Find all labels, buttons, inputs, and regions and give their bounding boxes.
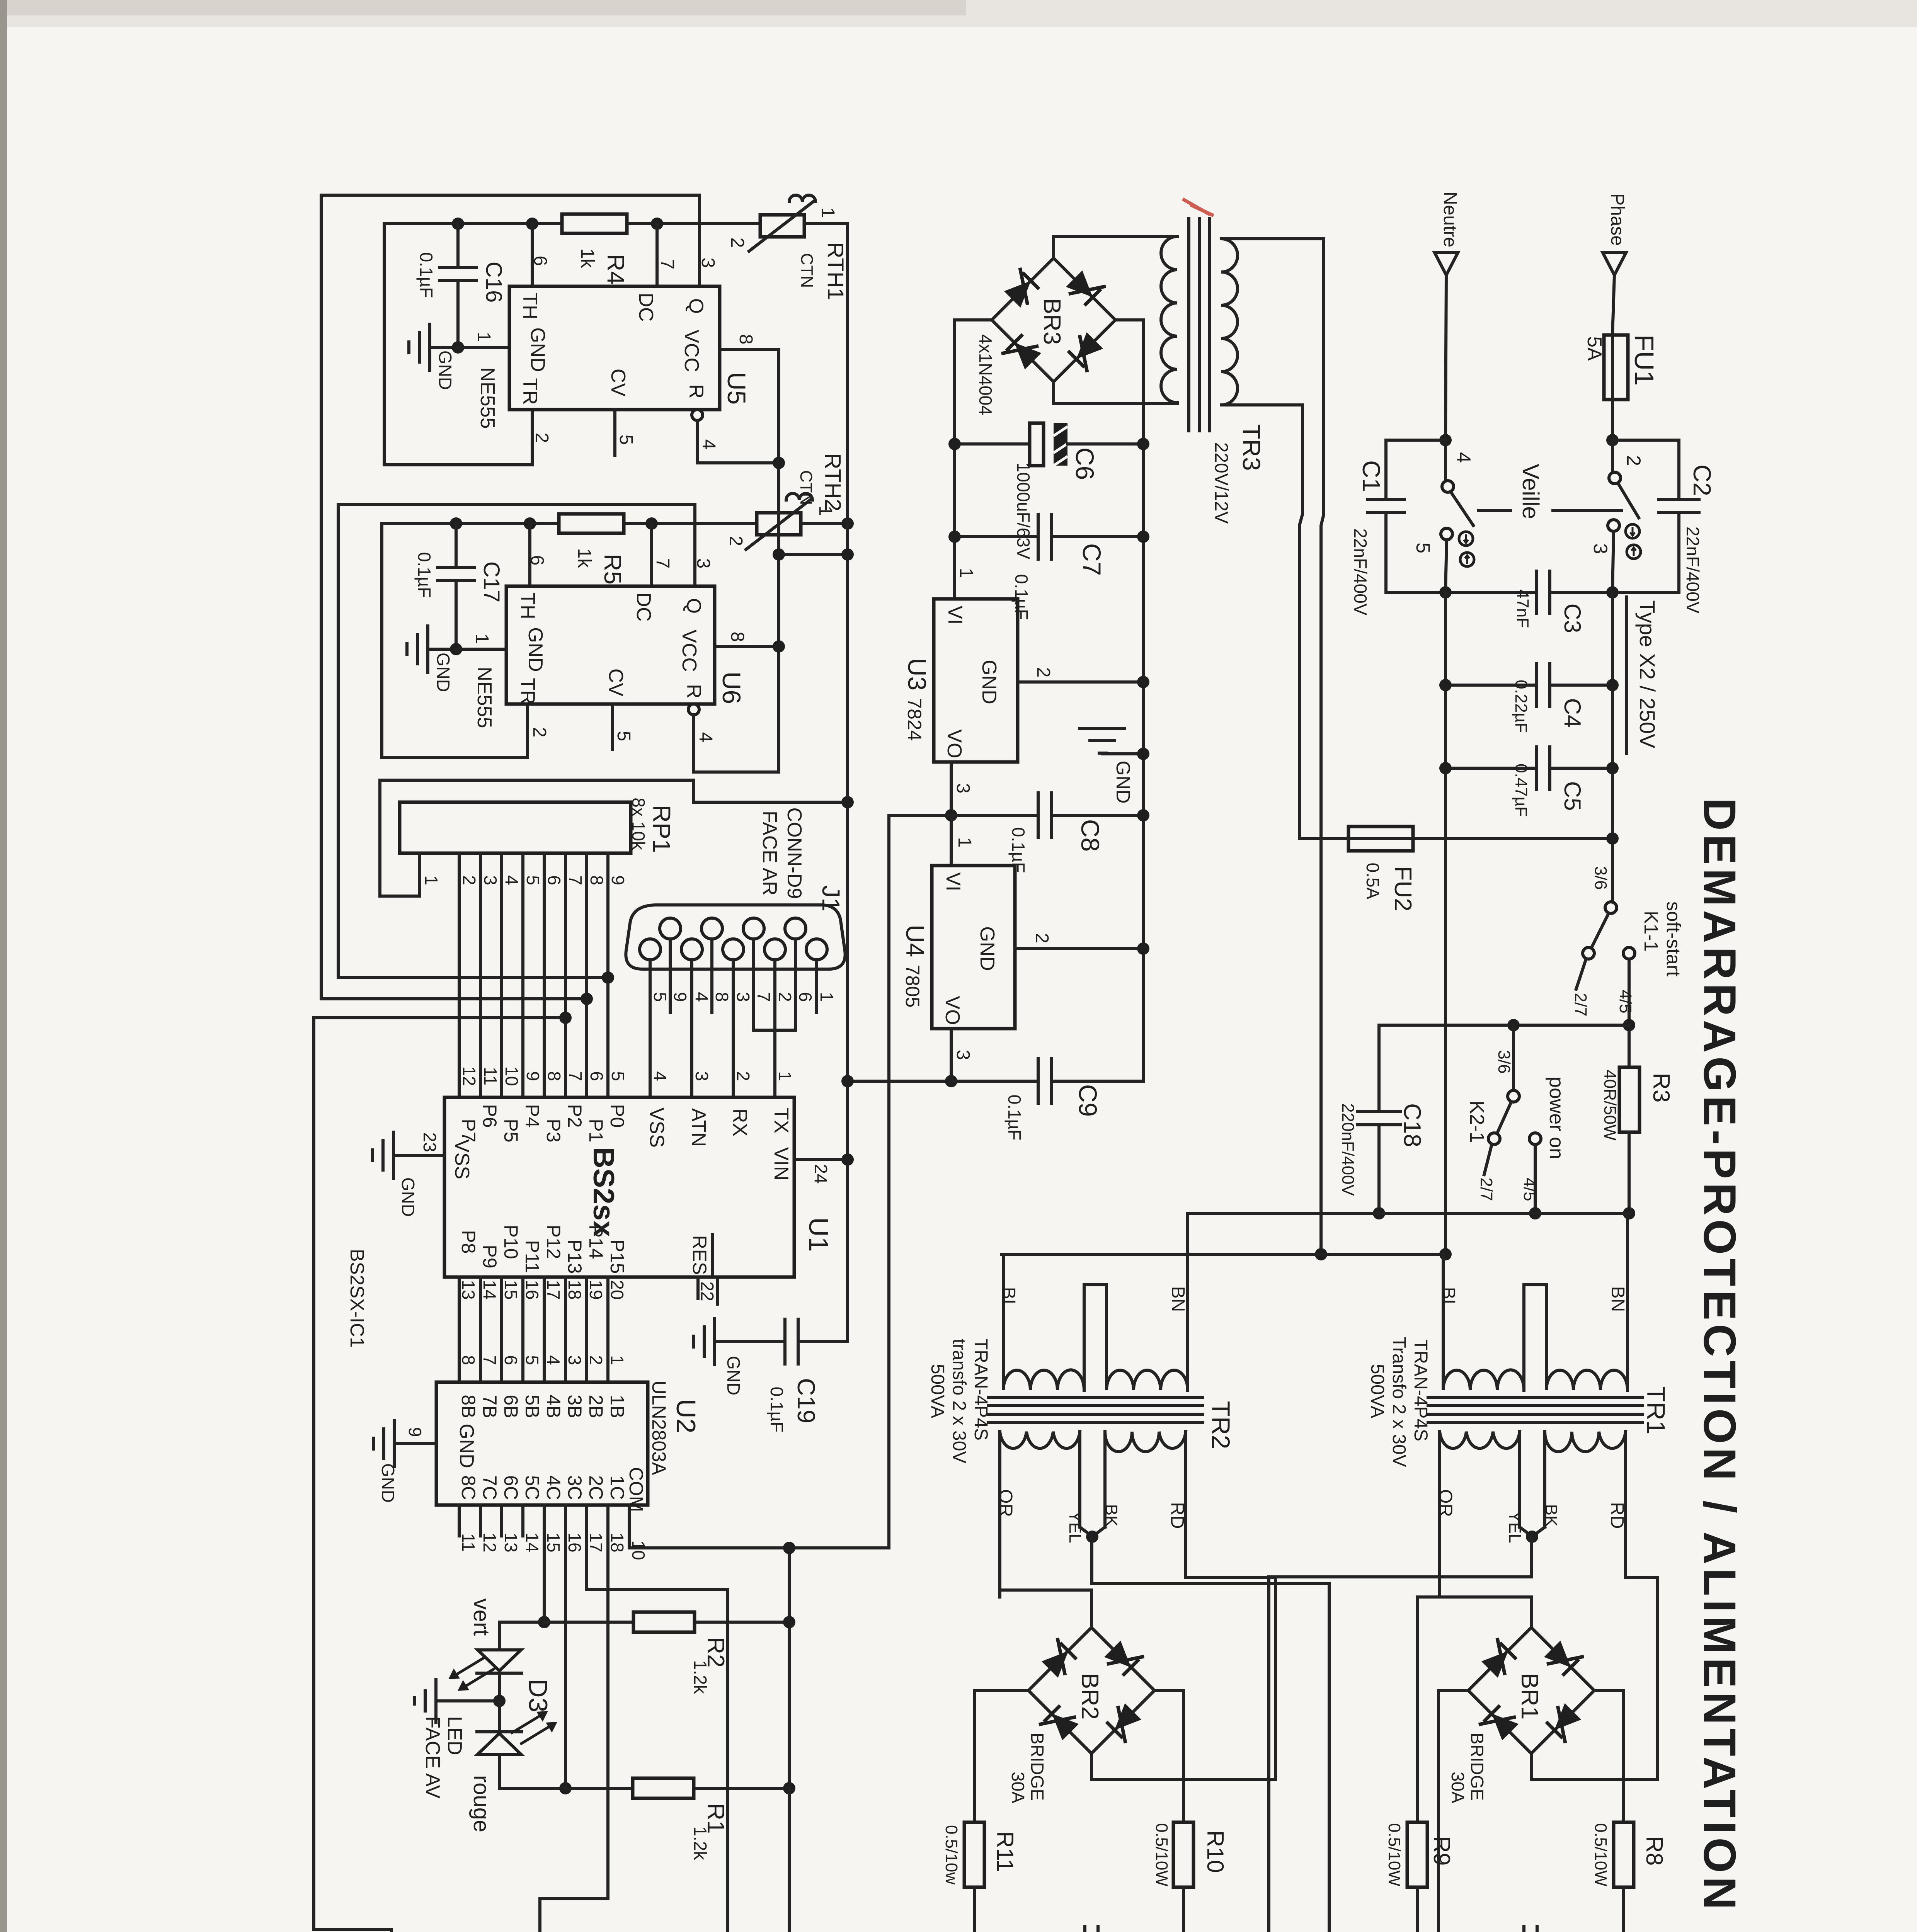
node junctions top rail U6: [450, 517, 462, 530]
resistor R3 40R/50W: [1619, 1067, 1639, 1132]
wire BR3 right to GND rail: [1115, 320, 1143, 1081]
wire U6 pin8 VCC: [715, 645, 779, 648]
svg-text:CTN: CTN: [797, 253, 816, 288]
capacitor C6 1000uF/63V: [955, 442, 1030, 446]
svg-text:6: 6: [544, 875, 564, 885]
wire RP1 pin1 to VCC rail: [380, 780, 848, 896]
svg-text:11: 11: [480, 1067, 501, 1085]
capacitor C2 22nF/400V: [1612, 440, 1679, 500]
resistor R11 0.5/10W: [964, 1822, 984, 1887]
wire COM branch down: [788, 1548, 791, 1788]
svg-text:BL: BL: [1438, 1287, 1459, 1310]
svg-text:7824: 7824: [904, 698, 925, 741]
svg-text:TR1: TR1: [1642, 1386, 1670, 1435]
transformer TR2 core: [988, 1396, 1203, 1399]
svg-text:0.1µF: 0.1µF: [1004, 1095, 1025, 1141]
svg-text:220V/12V: 220V/12V: [1211, 442, 1231, 524]
svg-text:C19: C19: [792, 1378, 820, 1423]
svg-text:C9: C9: [1074, 1084, 1102, 1117]
svg-text:4: 4: [1453, 452, 1474, 463]
svg-text:14: 14: [522, 1532, 542, 1552]
svg-text:12: 12: [459, 1066, 479, 1086]
svg-text:9: 9: [405, 1427, 425, 1437]
svg-text:BS2sx: BS2sx: [587, 1147, 620, 1237]
wire TR2 YEL/BK centre tap to 0V: [1092, 1537, 1329, 1932]
svg-text:3C: 3C: [564, 1475, 586, 1500]
svg-text:19: 19: [586, 1280, 606, 1299]
wire Neutre rail down: [1444, 592, 1447, 1254]
svg-text:5A: 5A: [1583, 336, 1605, 361]
relay contact K2-1 power on: [1512, 1025, 1515, 1090]
svg-text:7: 7: [565, 875, 586, 885]
svg-text:1: 1: [956, 568, 976, 578]
svg-text:C18: C18: [1399, 1103, 1425, 1147]
svg-text:11: 11: [458, 1533, 478, 1552]
wire U2 pin16 output (rouge LED): [564, 1505, 567, 1788]
wire U6 TH/TR loop: [382, 524, 528, 757]
svg-text:rouge: rouge: [469, 1775, 494, 1832]
svg-text:D3: D3: [523, 1679, 553, 1713]
bridge BR3 4x1N4004: [992, 258, 1115, 382]
svg-text:16: 16: [522, 1280, 542, 1299]
capacitor C19 0.1uF at RES rail: [715, 1340, 785, 1343]
svg-text:8C: 8C: [458, 1475, 479, 1500]
capacitor C4 0.22uF: [1445, 684, 1537, 687]
regulator U3 7824: [934, 599, 1018, 762]
svg-text:7: 7: [565, 1071, 586, 1081]
svg-text:K1-1: K1-1: [1640, 911, 1662, 952]
U2 output stubs pins 11-14: [458, 1505, 461, 1536]
svg-text:TH: TH: [519, 293, 541, 319]
svg-text:4: 4: [502, 875, 522, 885]
svg-text:1: 1: [817, 207, 838, 218]
svg-text:C6: C6: [1071, 447, 1099, 480]
wire TR3 primary bottom lead: [1221, 405, 1302, 838]
wire H1 phase bus to TR primaries: [1190, 1212, 1629, 1215]
svg-text:5: 5: [650, 992, 670, 1002]
Neutre input arrow: [1435, 253, 1458, 275]
svg-text:BR2: BR2: [1076, 1673, 1103, 1720]
wire U1 VIN pin24 to rail: [794, 1158, 848, 1161]
TR2 secondary leads: [998, 1432, 1001, 1597]
svg-text:15: 15: [501, 1280, 521, 1299]
svg-text:9: 9: [608, 875, 628, 885]
svg-text:5: 5: [608, 1071, 628, 1081]
svg-text:CV: CV: [604, 668, 627, 697]
svg-text:13: 13: [501, 1532, 521, 1552]
svg-text:4/5: 4/5: [1520, 1177, 1539, 1201]
svg-text:5: 5: [613, 731, 634, 742]
resistor pack RP1 8x10k: [400, 802, 631, 853]
svg-text:0.47µF: 0.47µF: [1512, 764, 1531, 817]
svg-text:4: 4: [695, 732, 716, 743]
wire TR1 OR lead node: [1417, 1597, 1531, 1628]
svg-text:2: 2: [531, 433, 552, 443]
svg-text:24: 24: [811, 1164, 831, 1184]
capacitor C3 47nF: [1535, 571, 1538, 614]
svg-text:1: 1: [607, 1355, 627, 1365]
J1 pin leads: [649, 960, 652, 1097]
svg-text:8: 8: [587, 875, 607, 885]
wire U4 pin3 VO to +5 rail: [950, 1029, 953, 1081]
ground at C16: [430, 346, 458, 349]
wires U1 pins13-20 to U2: [458, 1277, 461, 1382]
capacitor C5 0.47uF: [1445, 767, 1537, 770]
wire RTH1 to VCC rail: [804, 222, 848, 225]
wire R1 rail: [499, 1787, 565, 1790]
svg-text:VCC: VCC: [678, 629, 700, 672]
svg-text:DEMARRAGE-PROTECTION / ALIMENT: DEMARRAGE-PROTECTION / ALIMENTATION: [1694, 798, 1745, 1913]
svg-text:220nF/400V: 220nF/400V: [1338, 1103, 1357, 1196]
svg-text:OR: OR: [995, 1489, 1016, 1517]
connector J1 CONN-D9 FACE AR: [626, 905, 845, 969]
wire U6 pin1 GND: [456, 648, 506, 651]
svg-text:P12: P12: [543, 1225, 564, 1259]
svg-text:BK: BK: [1102, 1504, 1121, 1527]
svg-text:NE555: NE555: [476, 367, 499, 429]
svg-text:BN: BN: [1168, 1286, 1188, 1312]
svg-text:1: 1: [473, 332, 494, 342]
push button M/A: [314, 1018, 392, 1932]
wire TR2 OR lead to BR2 top: [1000, 1432, 1091, 1628]
svg-text:FACE AR: FACE AR: [758, 811, 781, 896]
wire U6 pin6: [528, 524, 531, 586]
svg-text:3: 3: [692, 1071, 712, 1081]
wire U6 pin7: [650, 524, 653, 586]
svg-text:DC: DC: [635, 293, 657, 321]
wire BR1 bottom corner: [1530, 1753, 1533, 1780]
svg-text:R9: R9: [1429, 1836, 1455, 1866]
wire U5 pin7: [655, 224, 659, 286]
svg-text:Q: Q: [685, 298, 707, 314]
svg-text:CV: CV: [607, 369, 629, 397]
ground at D3 mid: [493, 1695, 506, 1707]
svg-text:P5: P5: [500, 1119, 522, 1142]
capacitor C16 0.1uF: [456, 224, 460, 267]
wire U2 pin18 output (K2-2): [606, 1505, 609, 1899]
wire U2 COM pin10 to 24V: [628, 1505, 631, 1548]
svg-text:2C: 2C: [585, 1475, 607, 1500]
svg-text:8B: 8B: [458, 1395, 479, 1418]
svg-text:GND: GND: [435, 350, 455, 390]
svg-text:P1: P1: [585, 1119, 607, 1142]
svg-text:1000uF/63V: 1000uF/63V: [1013, 463, 1033, 560]
svg-text:GND: GND: [976, 926, 998, 971]
svg-text:VI: VI: [944, 605, 966, 624]
svg-text:30A: 30A: [1448, 1772, 1468, 1803]
svg-text:Veille: Veille: [1518, 464, 1544, 519]
transformer TR2 secondary winding: [1000, 1432, 1080, 1448]
LED D3 vert: [498, 1622, 501, 1650]
svg-text:OR: OR: [1435, 1489, 1456, 1517]
svg-text:7B: 7B: [479, 1395, 501, 1418]
svg-text:C2: C2: [1688, 464, 1716, 496]
svg-text:15: 15: [543, 1532, 564, 1552]
svg-text:0.5/10w: 0.5/10w: [942, 1825, 961, 1884]
svg-text:vert: vert: [469, 1599, 494, 1636]
svg-text:CONN-D9: CONN-D9: [783, 808, 805, 899]
svg-text:P15: P15: [606, 1240, 628, 1274]
svg-text:6: 6: [587, 1071, 607, 1081]
svg-text:3: 3: [1590, 543, 1611, 554]
svg-text:0.1µF: 0.1µF: [767, 1387, 787, 1433]
svg-text:3/6: 3/6: [1591, 866, 1610, 889]
wire Neutre down: [1445, 275, 1446, 440]
svg-text:U6: U6: [717, 672, 746, 704]
wire U5 pin8 VCC: [720, 348, 779, 351]
svg-text:22nF/400V: 22nF/400V: [1683, 526, 1703, 613]
relay contact 4/5 (Veille): [1444, 440, 1447, 481]
svg-text:NE555: NE555: [473, 667, 495, 728]
svg-text:TR3: TR3: [1238, 424, 1265, 471]
svg-text:BRIDGE: BRIDGE: [1027, 1733, 1047, 1801]
wire C1-C5 rail (1533): [1386, 591, 1537, 594]
svg-text:6: 6: [795, 992, 815, 1002]
wire U4 pin2 GND: [1015, 947, 1143, 950]
svg-text:P13: P13: [564, 1240, 586, 1274]
wire BR3 bottom to TR3 secondary: [1054, 382, 1177, 403]
svg-text:17: 17: [586, 1532, 606, 1552]
node RP1 pin9 / U6 Q: [602, 971, 614, 984]
timer U6 NE555 box: [506, 586, 715, 704]
capacitor C18 220nF/400V: [1377, 1025, 1381, 1112]
svg-text:FU2: FU2: [1389, 866, 1416, 911]
svg-text:C16: C16: [481, 262, 506, 303]
svg-text:2: 2: [733, 1071, 753, 1081]
svg-text:C4: C4: [1559, 698, 1585, 728]
svg-text:8: 8: [735, 334, 756, 345]
svg-text:2B: 2B: [585, 1395, 607, 1418]
svg-text:BR1: BR1: [1516, 1673, 1543, 1720]
svg-text:1B: 1B: [606, 1395, 628, 1418]
capacitor C1 22nF/400V: [1386, 440, 1445, 500]
svg-text:40R/50W: 40R/50W: [1600, 1070, 1619, 1141]
svg-text:6C: 6C: [500, 1475, 522, 1500]
svg-text:TR: TR: [516, 678, 539, 704]
svg-text:C3: C3: [1559, 604, 1585, 633]
svg-text:2: 2: [1033, 667, 1054, 678]
svg-text:1: 1: [775, 1071, 795, 1081]
wire U5 pin1 GND: [458, 346, 509, 349]
svg-text:3B: 3B: [564, 1395, 586, 1418]
wire Phase to FU1: [1612, 275, 1614, 335]
svg-text:R: R: [685, 384, 707, 399]
svg-text:7: 7: [754, 992, 774, 1002]
svg-text:C8: C8: [1076, 819, 1105, 852]
svg-text:R5: R5: [599, 554, 626, 584]
svg-text:BK: BK: [1542, 1504, 1561, 1527]
svg-text:4C: 4C: [543, 1475, 564, 1500]
svg-text:47nF: 47nF: [1513, 589, 1532, 628]
svg-text:CTN: CTN: [797, 470, 815, 505]
svg-text:Phase: Phase: [1607, 193, 1628, 246]
capacitor C9 0.1uF: [951, 1080, 1038, 1083]
svg-text:R4: R4: [602, 254, 629, 284]
svg-text:1: 1: [954, 837, 975, 848]
svg-text:R10: R10: [1202, 1830, 1228, 1873]
transformer TR1 core: [1428, 1396, 1643, 1399]
transformer TR1 secondary winding: [1440, 1432, 1520, 1448]
svg-text:2/7: 2/7: [1477, 1177, 1496, 1201]
svg-text:Type X2 / 250V: Type X2 / 250V: [1635, 600, 1660, 749]
svg-text:GND: GND: [398, 1177, 418, 1217]
svg-text:VSS: VSS: [451, 1139, 473, 1179]
svg-text:4: 4: [650, 1071, 670, 1081]
svg-text:VSS: VSS: [645, 1107, 668, 1148]
wire U5 pin4 R: [692, 410, 703, 420]
svg-text:20: 20: [607, 1280, 627, 1299]
svg-text:18: 18: [607, 1532, 627, 1552]
svg-text:U4: U4: [901, 925, 930, 957]
svg-text:1k: 1k: [577, 248, 598, 269]
svg-text:GND: GND: [455, 1423, 478, 1468]
wire U2 pin15 output (vert LED): [543, 1505, 546, 1622]
wire U2 pin18 jog to K2-2 left: [540, 1897, 608, 1900]
wire Phase rail down: [1611, 592, 1614, 902]
svg-text:3/6: 3/6: [1495, 1050, 1514, 1073]
svg-text:8: 8: [544, 1071, 564, 1081]
svg-text:GND: GND: [433, 653, 453, 692]
capacitor C17 0.1uF: [455, 524, 458, 567]
svg-text:2: 2: [586, 1355, 606, 1365]
wire BR3 left to C6 rail: [955, 320, 992, 599]
svg-text:BR3: BR3: [1039, 298, 1065, 345]
resistor R1 1.2k: [633, 1778, 694, 1798]
svg-text:BL: BL: [998, 1287, 1019, 1310]
svg-text:2: 2: [459, 875, 479, 885]
svg-text:P0: P0: [606, 1104, 628, 1128]
svg-text:22nF/400V: 22nF/400V: [1350, 528, 1371, 615]
svg-text:5C: 5C: [521, 1475, 543, 1500]
wire BR1 right corner to R8: [1594, 1690, 1624, 1822]
svg-text:GND: GND: [378, 1463, 398, 1503]
ground at GND rail: [1102, 752, 1143, 755]
wire U5 pin5 CV stub: [613, 410, 616, 455]
wire U5 Q feedback frame: [321, 195, 700, 999]
svg-text:YEL: YEL: [1505, 1511, 1524, 1543]
red scan mark near TR3: [1183, 199, 1214, 216]
svg-text:5B: 5B: [521, 1395, 543, 1418]
svg-text:DC: DC: [632, 592, 655, 621]
transformer TR2 primary winding: [1003, 1254, 1084, 1390]
svg-text:6: 6: [527, 555, 547, 566]
bridge BR1 BRIDGE 30A: [1468, 1628, 1594, 1753]
svg-text:2: 2: [1032, 933, 1052, 944]
svg-text:0.5/10W: 0.5/10W: [1591, 1823, 1610, 1886]
svg-text:VIN: VIN: [770, 1147, 792, 1181]
svg-text:R11: R11: [992, 1831, 1018, 1872]
capacitor C7 0.1uF: [955, 535, 1038, 538]
bridge BR2 BRIDGE 30A: [1028, 1628, 1154, 1753]
svg-text:LED: LED: [443, 1716, 466, 1755]
svg-text:3: 3: [733, 992, 753, 1002]
ground at C17: [428, 648, 456, 651]
wire RTH2 to VCC rail: [801, 522, 848, 525]
svg-text:1k: 1k: [574, 548, 594, 568]
svg-text:0.1µF: 0.1µF: [416, 252, 436, 298]
svg-text:C5: C5: [1559, 781, 1585, 811]
svg-text:P10: P10: [500, 1225, 522, 1259]
wire U3 pin3 VO: [950, 762, 953, 815]
svg-text:P8: P8: [458, 1230, 479, 1253]
wire U1 pin23 VSS to ground: [393, 1154, 444, 1157]
svg-text:FACE AV: FACE AV: [421, 1716, 444, 1799]
svg-text:BRIDGE: BRIDGE: [1467, 1733, 1487, 1801]
relay contact 2/3 (Veille): [1611, 440, 1614, 472]
microcontroller U1 BS2sx box: [444, 1097, 794, 1277]
wire soft-start node (2653): [1379, 1024, 1629, 1027]
transformer TR1 primary winding: [1443, 1254, 1524, 1390]
svg-text:5: 5: [1412, 543, 1434, 553]
wire U2 pin17 output (K1-2): [587, 1505, 728, 1932]
svg-text:22: 22: [697, 1281, 717, 1301]
TR1 secondary leads: [1438, 1432, 1441, 1597]
svg-text:6: 6: [530, 256, 550, 266]
svg-text:U3: U3: [903, 658, 931, 690]
svg-text:7: 7: [652, 558, 673, 569]
svg-text:16: 16: [565, 1532, 585, 1552]
svg-text:GND: GND: [526, 327, 549, 372]
svg-text:8x 10k: 8x 10k: [628, 798, 649, 850]
svg-text:7: 7: [480, 1355, 500, 1365]
svg-text:23: 23: [420, 1132, 440, 1152]
svg-text:R3: R3: [1648, 1073, 1674, 1103]
fuse FU1 5A: [1604, 335, 1628, 400]
svg-text:TH: TH: [516, 592, 539, 619]
relay coupling dashes (Veille): [1479, 509, 1510, 512]
svg-text:R8: R8: [1641, 1836, 1667, 1866]
svg-text:TRAN-4P4S: TRAN-4P4S: [970, 1338, 991, 1440]
regulator U4 7805: [932, 866, 1015, 1029]
resistor R8 0.5/10W: [1614, 1822, 1634, 1887]
svg-text:1.2k: 1.2k: [690, 1660, 710, 1694]
resistor R5 1k: [559, 514, 624, 533]
svg-text:TR: TR: [519, 378, 541, 405]
wire BR2 left corner to R11: [974, 1690, 1028, 1822]
svg-text:U1: U1: [804, 1217, 834, 1252]
svg-text:500VA: 500VA: [1367, 1364, 1388, 1418]
svg-text:Transfo 2 x 30V: Transfo 2 x 30V: [1389, 1337, 1409, 1467]
wire BR3 top to TR3 secondary: [1054, 236, 1177, 258]
svg-text:3: 3: [565, 1355, 585, 1365]
svg-text:U5: U5: [722, 372, 751, 405]
wire TR3 primary top to FU2: [1221, 239, 1324, 1254]
svg-text:12: 12: [480, 1532, 500, 1552]
svg-text:power on: power on: [1545, 1077, 1568, 1159]
svg-text:ULN2803A: ULN2803A: [648, 1381, 670, 1475]
svg-text:Q: Q: [683, 598, 705, 614]
wire U3 VO to U4 VI and 24V line: [889, 814, 951, 817]
svg-text:7805: 7805: [902, 964, 923, 1007]
svg-text:soft-start: soft-start: [1663, 901, 1684, 977]
fuse FU2 0.5A: [1299, 837, 1348, 840]
svg-text:4: 4: [543, 1355, 564, 1365]
svg-text:5: 5: [523, 875, 543, 885]
svg-text:0.5/10W: 0.5/10W: [1152, 1823, 1171, 1886]
resistor R10 0.5/10W: [1173, 1822, 1193, 1887]
svg-text:6B: 6B: [500, 1395, 522, 1418]
svg-text:4/5: 4/5: [1616, 990, 1635, 1013]
Phase input arrow: [1603, 253, 1626, 275]
LED D3 rouge: [498, 1701, 501, 1734]
wire H2 neutre bus to TR primaries: [1002, 1253, 1445, 1256]
resistor R2 1.2k: [633, 1612, 695, 1632]
svg-text:7C: 7C: [479, 1475, 501, 1500]
wire TR2 RD lead to BR2: [1091, 1432, 1275, 1780]
svg-text:ATN: ATN: [687, 1108, 710, 1147]
svg-text:0.5A: 0.5A: [1363, 863, 1383, 900]
svg-text:4: 4: [692, 992, 712, 1002]
